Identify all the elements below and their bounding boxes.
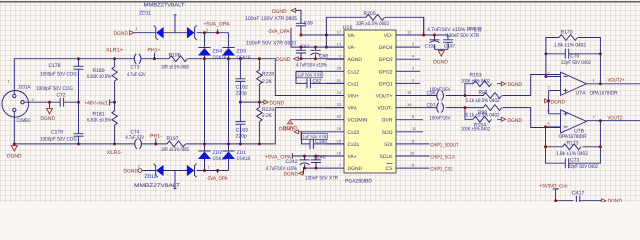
svg-text:C70: C70 xyxy=(570,53,579,59)
svg-text:C179: C179 xyxy=(51,130,63,136)
svg-text:VA+: VA+ xyxy=(348,154,357,160)
svg-text:CHIP1_SCLK: CHIP1_SCLK xyxy=(431,154,456,160)
op-amp U7B xyxy=(561,110,587,133)
svg-text:1: 1 xyxy=(8,80,10,84)
svg-text:GPO2: GPO2 xyxy=(379,69,393,75)
svg-text:DGND: DGND xyxy=(508,82,523,88)
resistor R97 xyxy=(483,93,502,99)
svg-text:DGND: DGND xyxy=(41,116,56,122)
svg-text:1000pF 50V COG: 1000pF 50V COG xyxy=(36,86,73,92)
svg-text:DGND: DGND xyxy=(270,100,285,106)
svg-text:VIN+: VIN+ xyxy=(348,94,359,100)
svg-text:7: 7 xyxy=(593,114,595,119)
svg-text:1: 1 xyxy=(136,26,138,31)
svg-text:2: 2 xyxy=(138,163,140,168)
capacitor C68 (polarized) xyxy=(315,47,317,59)
clamp rail verticals through signal wires xyxy=(205,59,229,144)
svg-text:R229: R229 xyxy=(262,107,274,113)
svg-text:22pF 50V 0402: 22pF 50V 0402 xyxy=(561,60,591,66)
svg-text:DGND: DGND xyxy=(124,168,139,174)
svg-text:1uF 50V X7R: 1uF 50V X7R xyxy=(297,73,322,78)
svg-text:U16: U16 xyxy=(343,25,353,31)
svg-text:+48V-mic1: +48V-mic1 xyxy=(84,101,108,107)
svg-text:C178: C178 xyxy=(49,63,61,69)
diode ZD3 xyxy=(222,48,234,55)
svg-text:8: 8 xyxy=(412,138,414,143)
diode ZD4 xyxy=(198,48,210,55)
svg-text:C97: C97 xyxy=(427,103,436,109)
connector J101A circle xyxy=(2,91,29,118)
svg-text:ZD12: ZD12 xyxy=(145,174,157,180)
svg-text:VIN-: VIN- xyxy=(348,106,358,112)
svg-text:R197: R197 xyxy=(167,136,179,142)
svg-text:MMBZ27V8ALT: MMBZ27V8ALT xyxy=(134,183,181,189)
svg-text:1: 1 xyxy=(339,54,341,59)
ground DGND left of C72 xyxy=(49,102,51,108)
svg-text:12: 12 xyxy=(407,29,411,34)
svg-text:220p: 220p xyxy=(236,90,247,96)
capacitor C417 xyxy=(576,196,579,206)
capacitor C73 feedback xyxy=(546,147,601,163)
capacitor C62 between Cs12/Cs11 xyxy=(296,72,322,78)
capacitor C197 xyxy=(443,40,453,50)
svg-text:1.8k ±1% 0402: 1.8k ±1% 0402 xyxy=(554,42,586,48)
junction dots VA- area xyxy=(300,34,328,61)
IC U16 right pin stubs xyxy=(396,35,430,168)
capacitor C179 xyxy=(78,102,80,144)
svg-text:DGND: DGND xyxy=(348,166,363,172)
svg-text:AGND: AGND xyxy=(348,57,363,63)
svg-text:C162: C162 xyxy=(236,84,248,90)
svg-text:GPO4: GPO4 xyxy=(379,45,393,51)
svg-text:J101A: J101A xyxy=(18,85,31,91)
svg-text:-5VA_OPA: -5VA_OPA xyxy=(268,29,290,35)
svg-text:11: 11 xyxy=(412,126,416,131)
svg-text:C62: C62 xyxy=(313,79,322,85)
IC U16 right pin numbers xyxy=(407,29,416,167)
svg-text:CHIP1_CS2: CHIP1_CS2 xyxy=(431,167,453,173)
capacitor C162 xyxy=(239,59,241,102)
svg-text:1.8k ±1% 0402: 1.8k ±1% 0402 xyxy=(556,151,588,157)
svg-text:DGND: DGND xyxy=(433,59,448,65)
capacitor C69 xyxy=(296,23,306,35)
wire non-inverting DGND rail xyxy=(549,91,561,114)
capacitor C242 (polarized) at VA+ xyxy=(304,156,306,168)
svg-text:SDO: SDO xyxy=(382,130,393,136)
diode ZD1 xyxy=(222,152,234,159)
capacitor C178 xyxy=(78,59,80,102)
svg-text:VOUT2-: VOUT2- xyxy=(608,115,624,121)
power port DGND bottom right xyxy=(602,199,606,203)
svg-text:Cs21: Cs21 xyxy=(348,142,360,148)
power port DGND mid node xyxy=(264,100,268,104)
svg-text:21: 21 xyxy=(337,78,341,83)
wire RC mid node xyxy=(240,101,263,103)
capacitor C74 xyxy=(135,139,142,149)
svg-text:Cs12: Cs12 xyxy=(348,69,360,75)
svg-text:C193: C193 xyxy=(425,44,436,49)
svg-text:R200: R200 xyxy=(364,11,376,17)
svg-text:10R ±0.5% 0603: 10R ±0.5% 0603 xyxy=(356,21,389,27)
svg-text:4.7uF/16V ±10% 钾电容: 4.7uF/16V ±10% 钾电容 xyxy=(427,26,482,33)
wire U7A output xyxy=(587,83,640,85)
svg-text:220p: 220p xyxy=(236,134,247,140)
svg-text:R97: R97 xyxy=(479,90,488,96)
capacitor C180 between Cs22/Cs21 xyxy=(301,133,327,139)
resistor R98 xyxy=(483,105,502,111)
svg-text:CHIP1_SDOUT: CHIP1_SDOUT xyxy=(431,142,460,148)
svg-text:DGND: DGND xyxy=(276,57,291,63)
svg-text:100nF 50V X7R: 100nF 50V X7R xyxy=(305,176,338,182)
svg-text:DGND: DGND xyxy=(608,199,623,202)
resistor R197 xyxy=(167,141,186,147)
svg-text:100nF 100V X7R 0805: 100nF 100V X7R 0805 xyxy=(245,16,297,22)
capacitor C72 xyxy=(60,98,78,107)
IC U16 right pin names xyxy=(376,33,393,172)
svg-text:C73: C73 xyxy=(570,157,579,163)
svg-text:19: 19 xyxy=(337,138,341,143)
svg-text:PGA280IBD: PGA280IBD xyxy=(345,179,372,185)
svg-text:5: 5 xyxy=(412,42,414,47)
junction dots left block xyxy=(13,57,157,145)
svg-text:DGND: DGND xyxy=(272,9,287,15)
svg-text:2.2K: 2.2K xyxy=(262,79,273,85)
svg-text:R196: R196 xyxy=(169,52,181,58)
junction dots clamp area xyxy=(203,31,261,172)
capacitor C193 (polarized tantalum) xyxy=(430,40,440,50)
svg-text:C73: C73 xyxy=(131,65,140,71)
svg-text:18: 18 xyxy=(337,126,341,131)
svg-text:VA-: VA- xyxy=(348,33,356,39)
power port DGND after R154 xyxy=(501,117,505,121)
power rail +5VA_OPA wire xyxy=(197,29,229,47)
svg-text:5.1k ±0.5% 0402: 5.1k ±0.5% 0402 xyxy=(466,98,500,104)
IC U16 body xyxy=(344,30,396,173)
capacitor C163 xyxy=(239,102,241,144)
svg-text:2: 2 xyxy=(547,71,549,76)
svg-text:OPA1678IDR: OPA1678IDR xyxy=(559,134,587,140)
capacitor C97 xyxy=(437,103,444,113)
svg-text:22: 22 xyxy=(337,114,341,119)
svg-text:10R ±0.5% 0805: 10R ±0.5% 0805 xyxy=(161,147,189,153)
ground DGND below C193/C197 xyxy=(435,49,449,50)
svg-text:9: 9 xyxy=(412,163,414,168)
svg-text:ZD3: ZD3 xyxy=(237,49,247,55)
power port DGND left of ZD12 xyxy=(138,169,142,173)
svg-text:MMBZ27V8ALT: MMBZ27V8ALT xyxy=(144,3,186,9)
svg-text:13: 13 xyxy=(337,42,341,47)
resistor R196 xyxy=(169,56,188,62)
svg-text:3: 3 xyxy=(547,85,549,90)
svg-text:6.81K ±0.5%: 6.81K ±0.5% xyxy=(87,74,111,80)
svg-text:R173: R173 xyxy=(567,141,579,147)
svg-text:-5VA_OPA: -5VA_OPA xyxy=(207,176,228,182)
sheet top border xyxy=(0,0,640,1)
resistor R153 xyxy=(465,84,473,96)
svg-text:SCLK: SCLK xyxy=(379,154,393,160)
resistor R154 xyxy=(465,108,473,120)
wire U7B inverting input xyxy=(546,126,561,128)
wire XLR1+ top signal from connector to VIN+ xyxy=(14,59,344,96)
resistor R181 xyxy=(114,102,116,144)
svg-text:6: 6 xyxy=(412,114,414,119)
svg-text:C72: C72 xyxy=(57,92,66,98)
svg-text:ZD11: ZD11 xyxy=(139,10,151,16)
svg-text:22pF 50V 0402: 22pF 50V 0402 xyxy=(568,164,598,170)
ground DGND below connector xyxy=(13,144,15,146)
svg-text:10R ±0.5% 0805: 10R ±0.5% 0805 xyxy=(161,64,189,70)
power port DGND between op-amp inputs xyxy=(545,99,549,103)
svg-text:CS: CS xyxy=(386,166,394,172)
resistor R173 feedback xyxy=(546,121,601,147)
svg-text:1: 1 xyxy=(593,77,595,82)
svg-text:100nF 50V X7R: 100nF 50V X7R xyxy=(446,33,479,39)
svg-text:1: 1 xyxy=(208,164,210,169)
svg-text:R181: R181 xyxy=(93,111,105,117)
svg-text:DGND: DGND xyxy=(508,118,523,124)
junction dots U7A xyxy=(544,52,601,102)
wire VOUT- net to op-amp xyxy=(415,108,561,128)
capacitor C96 xyxy=(437,91,444,101)
svg-text:100nF/16V: 100nF/16V xyxy=(430,115,451,121)
svg-text:C197: C197 xyxy=(444,44,455,49)
svg-text:DGND: DGND xyxy=(283,126,298,132)
svg-text:DSK16: DSK16 xyxy=(213,55,227,61)
resistor R200 loop VA- to VD- xyxy=(326,17,423,35)
resistor R228 xyxy=(258,59,260,102)
svg-text:OPA1678IDR: OPA1678IDR xyxy=(590,90,618,96)
svg-text:U7A: U7A xyxy=(576,90,587,96)
junction dots VOUT nets xyxy=(464,94,467,109)
svg-text:C417: C417 xyxy=(572,191,585,197)
svg-text:Cs22: Cs22 xyxy=(348,130,360,136)
svg-text:4.7uF 63V: 4.7uF 63V xyxy=(126,135,145,141)
svg-text:ZD4: ZD4 xyxy=(213,49,223,55)
svg-text:DGND: DGND xyxy=(551,99,566,105)
capacitor C67 xyxy=(300,47,302,59)
power port DGND at VCOMIN xyxy=(287,120,292,123)
svg-text:3: 3 xyxy=(32,97,34,102)
svg-text:23: 23 xyxy=(337,102,341,107)
svg-text:VA-: VA- xyxy=(348,45,356,51)
capacitor C73 xyxy=(134,54,141,64)
svg-text:1000pF 50V COG: 1000pF 50V COG xyxy=(40,72,77,78)
wire U7A output to feedback xyxy=(599,77,601,84)
svg-text:VOUT-: VOUT- xyxy=(377,106,393,112)
svg-text:SDI: SDI xyxy=(384,142,392,148)
svg-text:PH1+: PH1+ xyxy=(148,48,161,54)
capacitor C240 at VA+ xyxy=(315,156,317,168)
power port +48V-mic1 xyxy=(110,99,115,105)
svg-text:2: 2 xyxy=(412,78,414,83)
wire VD- net xyxy=(415,17,448,40)
wire bottom DGND run xyxy=(556,200,602,202)
resistor R170 feedback xyxy=(546,38,601,77)
svg-text:15: 15 xyxy=(407,90,411,95)
svg-text:16: 16 xyxy=(337,150,341,155)
power port DGND after R153 xyxy=(501,82,505,86)
svg-text:R170: R170 xyxy=(561,30,573,36)
svg-text:C69: C69 xyxy=(304,21,313,27)
svg-text:5.1k ±0.5% 0402: 5.1k ±0.5% 0402 xyxy=(466,112,500,118)
svg-text:C242: C242 xyxy=(286,159,298,165)
capacitor C70 feedback xyxy=(546,53,601,55)
svg-text:DSK16: DSK16 xyxy=(237,55,251,61)
connector J101A pin circles xyxy=(13,94,16,97)
IC U16 left pin names xyxy=(348,33,368,172)
IC U16 left pin stubs xyxy=(290,35,344,168)
svg-text:VD-: VD- xyxy=(384,33,393,39)
wire connector pin3 to C72 xyxy=(24,101,60,103)
op-amp U7A xyxy=(561,72,587,95)
power port DGND left of ZD11 xyxy=(130,31,135,35)
svg-text:DGND: DGND xyxy=(7,154,22,160)
svg-text:100K ±5% 0402: 100K ±5% 0402 xyxy=(461,126,490,132)
svg-text:17: 17 xyxy=(337,29,341,34)
svg-text:4.7uF 63V: 4.7uF 63V xyxy=(127,72,146,78)
svg-text:GPO1: GPO1 xyxy=(379,81,393,87)
svg-text:4.7uF/16V ±10%: 4.7uF/16V ±10% xyxy=(296,63,327,69)
svg-text:DSK16: DSK16 xyxy=(237,156,251,162)
svg-text:OVR: OVR xyxy=(382,118,393,124)
svg-text:6: 6 xyxy=(547,121,549,126)
svg-text:5: 5 xyxy=(547,108,549,113)
wire XLR1- bottom signal from connector to VIN- xyxy=(14,108,344,144)
svg-text:VCOMIN: VCOMIN xyxy=(348,118,368,124)
wire U7B output xyxy=(587,120,640,122)
wire AGND pin 1 xyxy=(298,58,344,60)
svg-text:GPO3: GPO3 xyxy=(379,57,393,63)
svg-text:3: 3 xyxy=(412,66,414,71)
svg-text:Cs11: Cs11 xyxy=(348,81,360,87)
svg-text:VOUT2+: VOUT2+ xyxy=(608,77,625,83)
svg-text:XLR1+: XLR1+ xyxy=(106,48,123,54)
svg-text:100nF 50V X7R 0603: 100nF 50V X7R 0603 xyxy=(246,41,296,47)
zener pair ZD11 xyxy=(134,15,187,33)
CS overline xyxy=(387,163,393,165)
svg-text:100K ±5% 0402: 100K ±5% 0402 xyxy=(461,78,490,84)
wire U7A inverting input xyxy=(546,76,561,78)
svg-text:7: 7 xyxy=(339,163,341,168)
svg-text:VOUT+: VOUT+ xyxy=(376,94,393,100)
resistor R229 xyxy=(258,102,260,144)
svg-text:XLR1-: XLR1- xyxy=(107,150,123,156)
power rail -5VA_OPA wire xyxy=(197,171,229,174)
IC U16 left pin numbers xyxy=(337,29,342,167)
svg-text:1000pF 50V COG: 1000pF 50V COG xyxy=(40,136,77,142)
diode ZD2 xyxy=(198,152,210,159)
svg-text:2: 2 xyxy=(206,27,208,32)
junction dots VA+ row xyxy=(303,155,317,170)
svg-text:DGND: DGND xyxy=(114,31,129,37)
svg-text:DGND: DGND xyxy=(284,172,299,178)
junction dots U7B xyxy=(544,119,602,148)
svg-text:100nF/16V: 100nF/16V xyxy=(430,87,451,93)
wire VA- net (-5VA to pin13, pin17 tie) xyxy=(291,34,344,47)
svg-text:+5VA_OPA: +5VA_OPA xyxy=(204,21,231,27)
resistor R180 xyxy=(114,59,116,102)
svg-text:C180: C180 xyxy=(315,139,327,145)
svg-text:6.81K ±0.5%: 6.81K ±0.5% xyxy=(87,118,111,124)
svg-text:COMBO: COMBO xyxy=(17,118,31,124)
zener pair ZD12 xyxy=(142,171,187,189)
svg-text:R228: R228 xyxy=(262,72,274,78)
wire VOUT+ net to op-amp xyxy=(415,75,561,96)
svg-text:2.2K: 2.2K xyxy=(262,113,273,119)
